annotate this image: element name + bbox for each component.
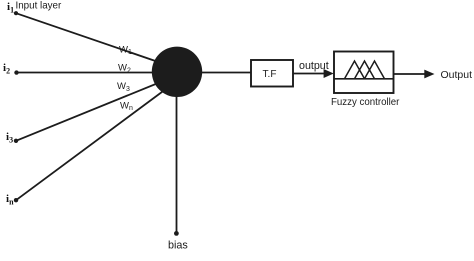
bias wire bbox=[176, 96, 178, 233]
wire neuron to T.F block bbox=[200, 72, 251, 74]
node in bbox=[14, 198, 18, 202]
arrowhead to output bbox=[424, 70, 434, 79]
wire fuzzy controller to output bbox=[394, 73, 427, 75]
node i3 bbox=[14, 139, 18, 143]
wire i3 to neuron bbox=[16, 79, 168, 141]
node i2 bbox=[14, 70, 18, 74]
fuzzy controller block bbox=[334, 52, 394, 94]
arrowhead into fuzzy controller bbox=[324, 69, 334, 78]
T.F block bbox=[251, 60, 293, 87]
membership triangle 1 bbox=[345, 61, 365, 79]
membership baseline bbox=[334, 78, 394, 80]
svg-text:bias: bias bbox=[168, 240, 188, 252]
node i1 bbox=[14, 11, 18, 15]
neuron summing node bbox=[152, 47, 202, 97]
membership triangle 3 bbox=[365, 61, 385, 79]
svg-text:Output: Output bbox=[441, 69, 473, 81]
svg-text:Fuzzy controller: Fuzzy controller bbox=[331, 97, 400, 108]
bias node bbox=[174, 231, 179, 236]
wire i1 to neuron bbox=[16, 13, 170, 66]
wire T.F to fuzzy controller bbox=[293, 73, 325, 75]
membership triangle 2 bbox=[355, 61, 375, 79]
svg-text:Input layer: Input layer bbox=[16, 0, 62, 11]
wire in to neuron bbox=[16, 86, 170, 200]
svg-text:T.F: T.F bbox=[263, 69, 277, 80]
wire i2 to neuron bbox=[17, 72, 178, 74]
svg-text:output: output bbox=[299, 60, 329, 72]
